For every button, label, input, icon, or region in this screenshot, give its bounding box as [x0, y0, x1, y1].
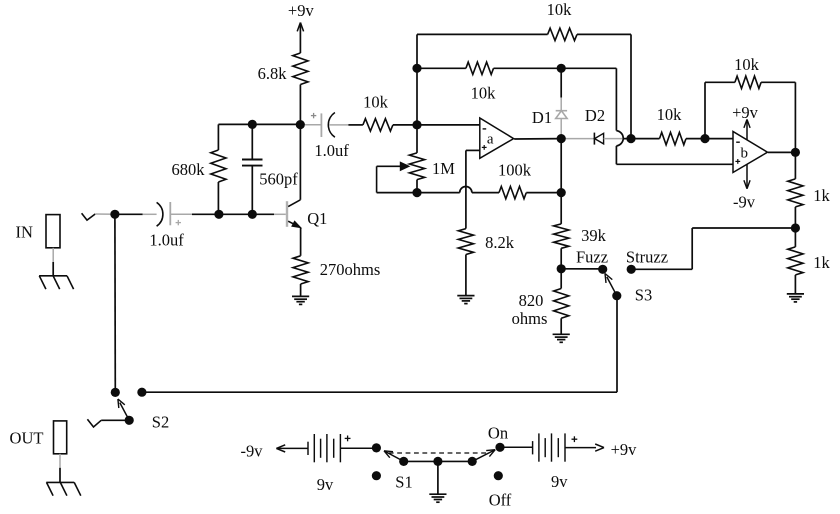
svg-text:1.0uf: 1.0uf	[149, 230, 184, 249]
svg-text:8.2k: 8.2k	[485, 233, 515, 252]
svg-text:10k: 10k	[657, 105, 683, 124]
svg-text:+9v: +9v	[732, 103, 759, 122]
svg-text:S1: S1	[395, 473, 412, 492]
svg-text:9v: 9v	[551, 472, 568, 491]
svg-text:10k: 10k	[547, 0, 573, 19]
svg-text:680k: 680k	[172, 160, 206, 179]
svg-text:Q1: Q1	[307, 209, 327, 228]
svg-text:+9v: +9v	[611, 440, 638, 459]
svg-text:+9v: +9v	[288, 1, 315, 20]
svg-text:10k: 10k	[471, 84, 497, 103]
svg-text:ohms: ohms	[512, 309, 548, 328]
svg-text:10k: 10k	[734, 55, 760, 74]
svg-text:9v: 9v	[317, 475, 334, 494]
svg-text:1k: 1k	[813, 253, 830, 272]
svg-text:6.8k: 6.8k	[258, 64, 288, 83]
svg-text:Struzz: Struzz	[626, 248, 668, 267]
svg-text:10k: 10k	[363, 93, 389, 112]
svg-text:On: On	[488, 424, 508, 443]
svg-text:820: 820	[519, 291, 544, 310]
svg-text:1k: 1k	[813, 186, 830, 205]
svg-text:270ohms: 270ohms	[320, 260, 381, 279]
svg-text:b: b	[741, 146, 749, 162]
svg-text:-9v: -9v	[241, 442, 264, 461]
svg-text:OUT: OUT	[10, 429, 44, 448]
svg-text:S3: S3	[635, 286, 652, 305]
svg-text:1M: 1M	[432, 159, 455, 178]
svg-text:Off: Off	[489, 491, 512, 510]
svg-text:IN: IN	[15, 223, 32, 242]
svg-text:D1: D1	[532, 108, 552, 127]
svg-text:a: a	[487, 131, 494, 147]
svg-text:D2: D2	[585, 106, 605, 125]
svg-text:S2: S2	[152, 413, 169, 432]
svg-text:1.0uf: 1.0uf	[314, 141, 349, 160]
svg-text:39k: 39k	[581, 226, 607, 245]
svg-text:100k: 100k	[498, 160, 532, 179]
svg-text:Fuzz: Fuzz	[576, 248, 608, 267]
svg-text:-9v: -9v	[733, 193, 756, 212]
svg-text:560pf: 560pf	[259, 169, 298, 188]
